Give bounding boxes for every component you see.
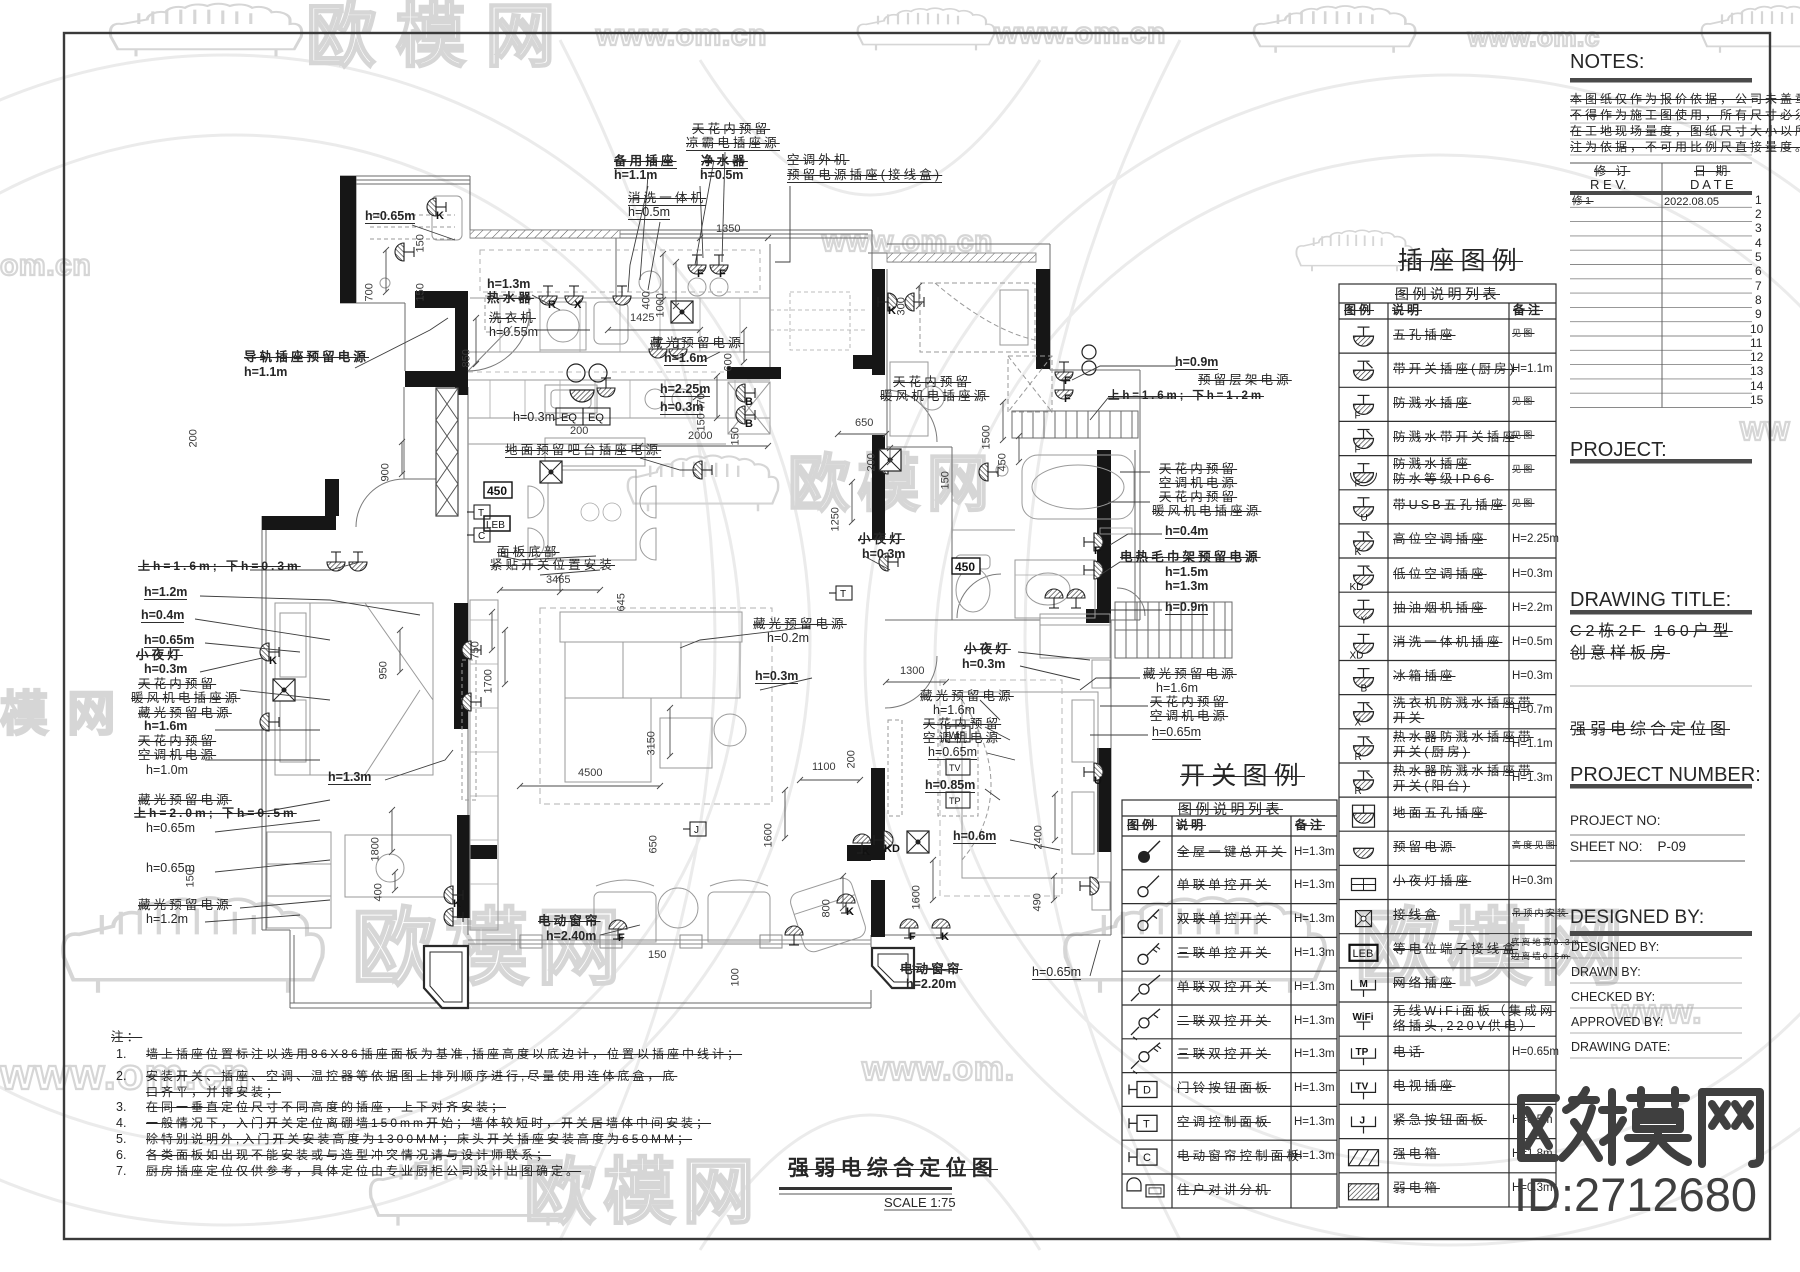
- switch legend icon pD: [1129, 1082, 1157, 1098]
- windows: [266, 180, 1135, 1003]
- socket legend icon WiFi: [1353, 1012, 1374, 1030]
- socket symbol: [1084, 561, 1103, 579]
- top balcony fixtures: [370, 196, 462, 288]
- bathroom fixtures: [952, 455, 1134, 618]
- socket legend icon F66: [1351, 464, 1377, 490]
- socket symbol K: [427, 198, 446, 216]
- socket legend icon U: [1354, 498, 1374, 524]
- socket legend icon TV: [1352, 1081, 1376, 1099]
- bottom balcony furniture: [594, 876, 868, 955]
- living room furniture: [462, 600, 772, 930]
- LEB box: [484, 516, 510, 531]
- socket legend icon J: [1352, 1116, 1376, 1134]
- socket legend icon weak: [1349, 1184, 1379, 1200]
- bay window right: [872, 948, 914, 988]
- socket symbol F: [710, 255, 728, 274]
- socket legend icon M: [1352, 979, 1376, 997]
- bay window left (electric curtain): [424, 946, 468, 1008]
- top bedroom furniture: [890, 283, 1052, 436]
- switch legend icon d2: [1131, 1009, 1160, 1040]
- notes paragraph underlines: [1570, 107, 1752, 155]
- socket symbol B: [736, 384, 755, 402]
- stairwell: [1115, 602, 1232, 658]
- socket legend icon F: [1354, 395, 1374, 421]
- socket symbol KD: [874, 831, 893, 849]
- corridor details: [770, 292, 868, 350]
- socket legend icon strong: [1349, 1150, 1379, 1166]
- socket legend icon wu5: [1354, 327, 1374, 346]
- NOTES heading bar: [1570, 78, 1752, 83]
- switch legend icon s3: [1138, 943, 1160, 964]
- socket legend icon B: [1354, 669, 1374, 695]
- kitchen cabinet divisions: [468, 298, 740, 418]
- socket symbol F: [1055, 380, 1073, 399]
- bottom title underline: [779, 1187, 952, 1190]
- socket symbol F: [1084, 533, 1103, 551]
- socket legend icon jb: [1356, 911, 1372, 927]
- switch legend icon d1: [1131, 975, 1160, 1001]
- bottom center title: [788, 1158, 998, 1180]
- entry cabinet: [485, 296, 529, 332]
- pendant circles: [567, 345, 1096, 402]
- socket legend icon R: [1354, 771, 1374, 797]
- socket legend icon R: [1354, 737, 1374, 763]
- socket symbol: [785, 926, 803, 945]
- socket symbol: [979, 463, 998, 481]
- socket symbol: [905, 293, 924, 311]
- socket symbol K: [444, 886, 463, 904]
- socket symbol: [462, 693, 481, 711]
- socket legend title: [1398, 248, 1523, 274]
- socket legend icon FK: [1354, 430, 1374, 456]
- left bedroom furniture: [267, 603, 451, 928]
- plan annotation labels: [614, 155, 677, 169]
- watermark sofa icons: [110, 4, 301, 57]
- switch legend icon dot: [1138, 841, 1160, 863]
- socket symbol: [879, 456, 898, 474]
- dimension numbers: [716, 224, 740, 236]
- socket symbol: [669, 339, 687, 358]
- socket legend icon KD: [1350, 566, 1374, 593]
- switch legend icon pT: [1129, 1115, 1157, 1131]
- socket symbol B: [736, 406, 755, 424]
- switch legend title: [1180, 763, 1305, 789]
- dimension lines: [383, 235, 1058, 911]
- general notes: [111, 1031, 142, 1044]
- socket symbol K: [932, 919, 950, 938]
- master bedroom furniture: [888, 614, 1110, 910]
- title block texts: [1570, 52, 1644, 73]
- socket legend icon night: [1352, 879, 1376, 891]
- black structural walls: [262, 176, 1111, 937]
- socket symbol: [1045, 589, 1063, 608]
- sliding door mullions: [468, 935, 871, 948]
- socket symbol: [879, 553, 898, 571]
- socket symbol: [649, 339, 667, 358]
- socket legend icon floor: [1353, 805, 1375, 827]
- socket legend icon swsock: [1354, 361, 1374, 380]
- socket symbol K: [878, 293, 897, 311]
- stair band upper: [1012, 411, 1138, 438]
- socket symbol F: [609, 920, 627, 939]
- socket symbol: [1080, 877, 1099, 895]
- laundry fixtures: [470, 250, 770, 352]
- switch panels: [467, 505, 490, 519]
- switch legend icon d3: [1131, 1043, 1161, 1074]
- socket symbol: [693, 461, 712, 479]
- socket symbol F: [900, 919, 918, 938]
- switch legend icon s1: [1138, 876, 1159, 897]
- socket symbol: [260, 713, 279, 731]
- hatched shaft column: [436, 388, 458, 516]
- socket symbol K: [837, 894, 855, 913]
- watermark texts: [306, 0, 575, 74]
- socket symbol: [462, 641, 481, 659]
- socket symbol X: [565, 286, 583, 305]
- window hatch top bedroom: [887, 253, 1036, 262]
- socket symbol F: [688, 255, 706, 274]
- socket symbol: [613, 286, 631, 305]
- socket symbol R: [539, 286, 557, 305]
- socket symbol: [597, 378, 615, 397]
- socket legend icon LEB: [1350, 945, 1378, 961]
- socket symbol: [327, 552, 345, 571]
- socket legend icon XD: [1350, 634, 1374, 661]
- REV table: [1570, 163, 1752, 408]
- EQ boxes: [556, 408, 610, 425]
- DRAWING TITLE bar: [1570, 610, 1752, 615]
- socket symbol F: [1055, 362, 1073, 381]
- dining set: [528, 438, 656, 560]
- tv wall shelving: [470, 503, 1132, 928]
- socket symbol: [1067, 589, 1085, 608]
- junction boxes: [671, 301, 693, 323]
- socket legend icon semi: [1354, 848, 1374, 858]
- PROJECT NUMBER bar: [1570, 784, 1752, 789]
- boxed labels 450: [484, 482, 512, 498]
- socket legend icon TP: [1352, 1047, 1376, 1065]
- PROJECT bar: [1570, 459, 1752, 464]
- socket symbol K: [853, 834, 871, 853]
- socket symbol K: [260, 643, 279, 661]
- leader lines: [195, 152, 1240, 976]
- switch legend icon s2: [1138, 910, 1159, 931]
- socket symbol: [444, 908, 463, 926]
- socket legend icon X: [1354, 703, 1374, 729]
- kitchen counters: [468, 380, 770, 444]
- DESIGNED BY bar: [1570, 931, 1752, 936]
- door swings: [356, 309, 1145, 708]
- socket symbol: [395, 243, 414, 261]
- socket legend icon K: [1354, 532, 1374, 558]
- socket symbol: [349, 552, 367, 571]
- switch legend icon pC: [1129, 1149, 1157, 1165]
- switch legend icon ic: [1127, 1178, 1164, 1197]
- plan outer boundary: [262, 176, 1140, 1008]
- socket legend icon Y: [1354, 600, 1374, 626]
- socket symbol U: [1084, 763, 1103, 781]
